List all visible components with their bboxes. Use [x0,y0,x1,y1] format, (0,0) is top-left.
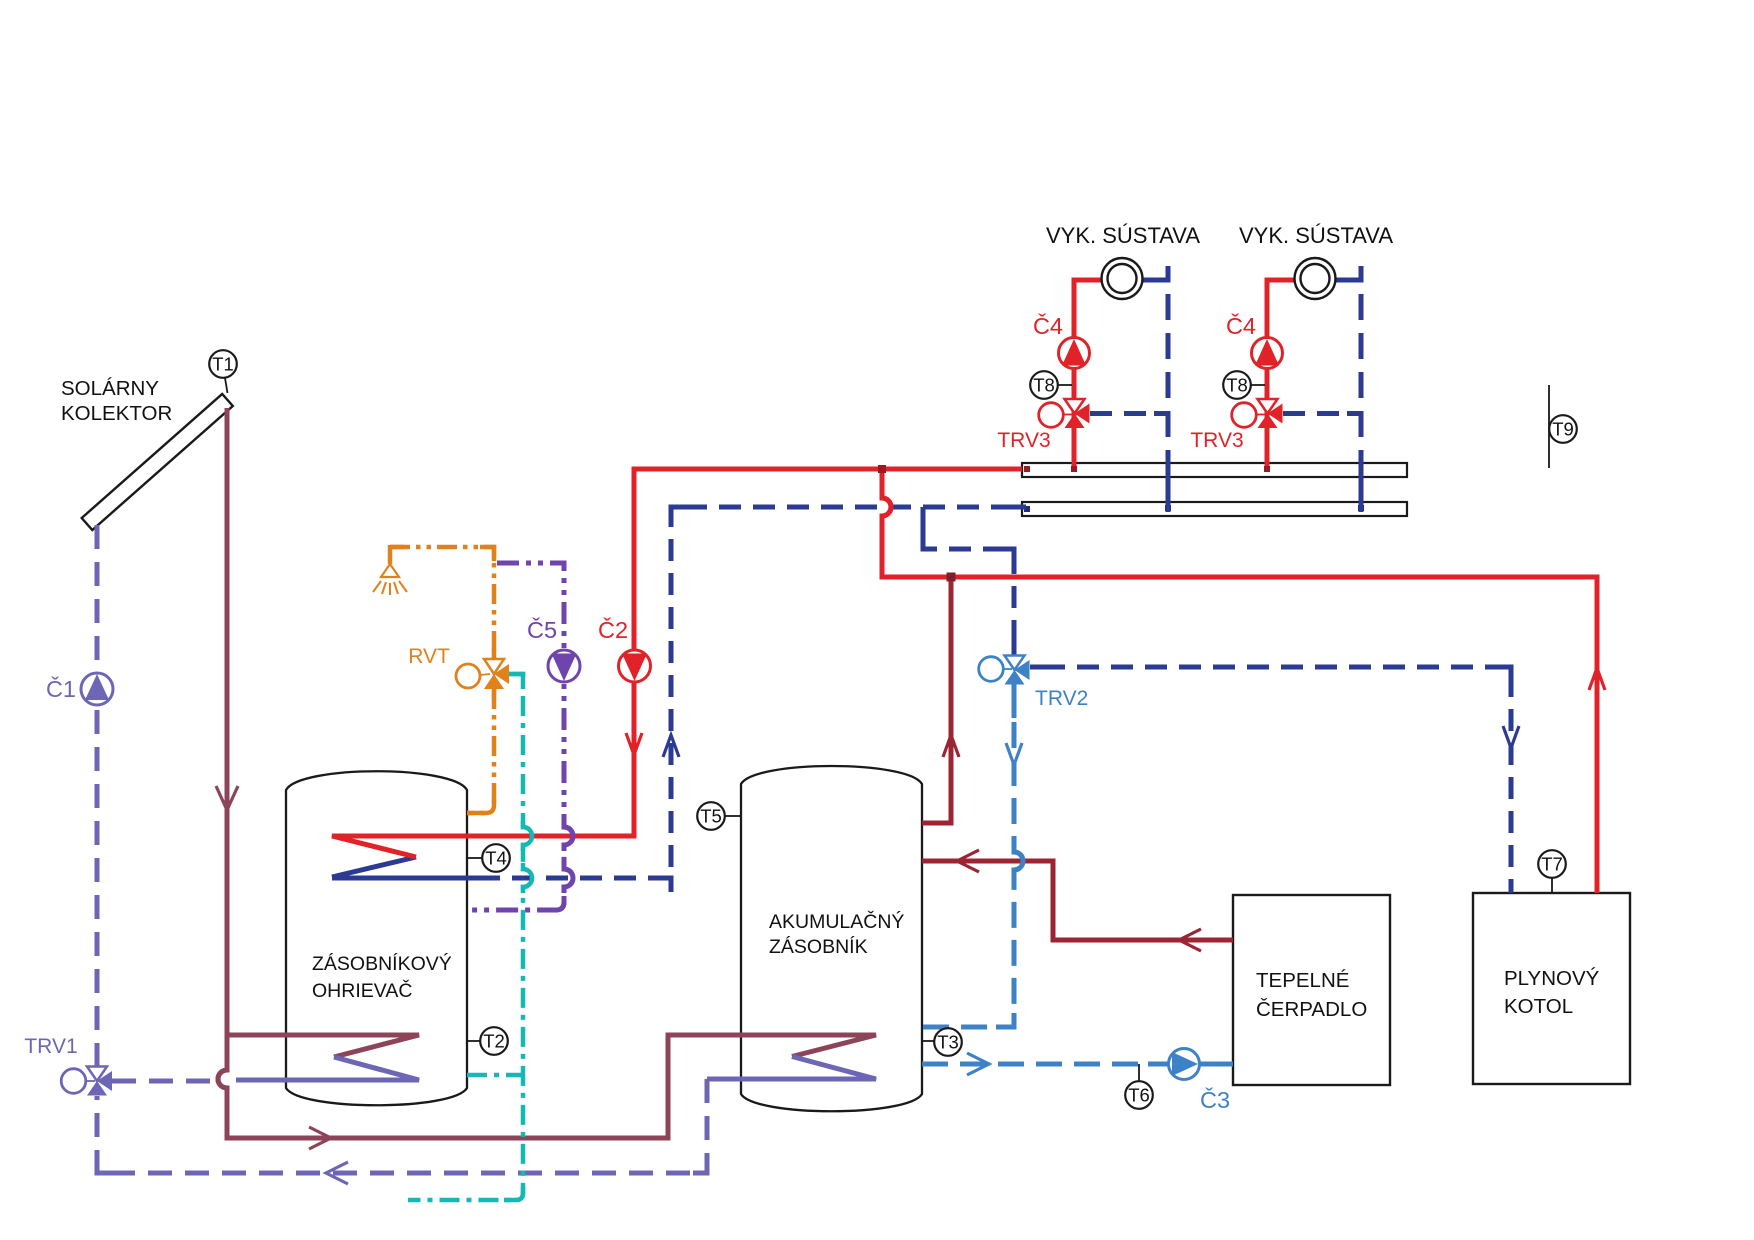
svg-text:Č4: Č4 [1033,312,1063,339]
svg-text:RVT: RVT [408,645,450,668]
svg-text:ZÁSOBNÍKOVÝ: ZÁSOBNÍKOVÝ [312,952,452,975]
svg-text:Č1: Č1 [46,675,76,702]
svg-text:Č4: Č4 [1226,312,1256,339]
svg-text:T7: T7 [1541,854,1563,875]
svg-text:TRV1: TRV1 [24,1035,77,1058]
svg-text:T1: T1 [212,354,234,375]
svg-text:TRV3: TRV3 [997,429,1050,452]
svg-text:T8: T8 [1033,375,1055,396]
svg-text:T2: T2 [483,1031,505,1052]
svg-text:TEPELNÉ: TEPELNÉ [1256,969,1349,992]
svg-text:AKUMULAČNÝ: AKUMULAČNÝ [769,910,904,933]
svg-text:Č2: Č2 [598,616,628,643]
svg-text:T6: T6 [1128,1085,1150,1106]
svg-text:ČERPADLO: ČERPADLO [1256,998,1367,1021]
svg-text:TRV3: TRV3 [1190,429,1243,452]
svg-text:T4: T4 [485,848,507,869]
svg-text:KOLEKTOR: KOLEKTOR [61,402,172,425]
svg-text:VYK. SÚSTAVA: VYK. SÚSTAVA [1239,223,1393,248]
svg-text:OHRIEVAČ: OHRIEVAČ [312,979,412,1002]
svg-text:KOTOL: KOTOL [1504,995,1573,1018]
svg-text:T9: T9 [1552,419,1574,440]
svg-text:PLYNOVÝ: PLYNOVÝ [1504,967,1600,990]
svg-text:VYK. SÚSTAVA: VYK. SÚSTAVA [1046,223,1200,248]
svg-text:T5: T5 [700,806,722,827]
svg-text:SOLÁRNY: SOLÁRNY [61,377,159,400]
svg-text:ZÁSOBNÍK: ZÁSOBNÍK [769,935,868,958]
svg-text:Č3: Č3 [1200,1086,1230,1113]
svg-text:Č5: Č5 [527,616,557,643]
svg-text:T3: T3 [937,1032,959,1053]
svg-text:T8: T8 [1226,375,1248,396]
svg-text:TRV2: TRV2 [1035,687,1088,710]
